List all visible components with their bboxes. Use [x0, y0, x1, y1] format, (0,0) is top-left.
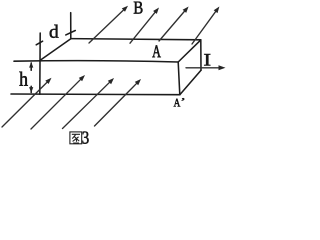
- slab bottom-right depth edge: [180, 70, 201, 95]
- dimension h down arrow head: [29, 87, 33, 93]
- extension line above back-top-left corner: [70, 13, 72, 39]
- front B field arrow 1 shaft: [2, 81, 49, 127]
- slab back-right vertical edge: [200, 40, 202, 70]
- slab back-top edge: [71, 39, 201, 40]
- label I (current): [204, 54, 210, 66]
- B field arrow 3 head: [183, 7, 189, 13]
- front B field arrow 1 head: [45, 78, 51, 84]
- front B field arrow 3 head: [108, 78, 114, 84]
- B field arrow 3 shaft: [159, 10, 186, 42]
- label B: [134, 2, 143, 14]
- dimension h shaft lower stub: [30, 86, 32, 92]
- slab front-top edge with left extension line: [14, 61, 178, 62]
- B field arrow 4 shaft: [192, 10, 217, 44]
- current I arrow shaft: [186, 67, 221, 69]
- slab top-left depth edge: [40, 39, 71, 60]
- slab front-left vertical edge with extension above: [39, 33, 41, 94]
- current I arrow head: [219, 65, 226, 70]
- label A (top surface): [152, 45, 161, 57]
- B field arrow 1 shaft: [89, 9, 125, 44]
- front B field arrow 4 head: [135, 79, 141, 85]
- slab front-right vertical edge: [178, 62, 180, 95]
- dimension h up arrow head: [29, 62, 33, 68]
- front B field arrow 4 shaft: [95, 82, 139, 126]
- label d (depth): [50, 25, 59, 38]
- dimension d tick on front extension: [36, 41, 42, 45]
- caption glyph 图: [70, 132, 82, 144]
- front B field arrow 2 shaft: [31, 78, 82, 129]
- front B field arrow 2 head: [79, 75, 85, 81]
- slab front-bottom edge with left extension line: [11, 93, 180, 96]
- label A-prime (bottom corner): [174, 99, 181, 107]
- B field arrow 4 head: [214, 7, 220, 14]
- B field arrow 2 shaft: [130, 11, 157, 44]
- B field arrow 2 head: [153, 8, 159, 14]
- slab top-right depth edge: [178, 40, 201, 62]
- dimension d tick on back extension: [66, 31, 76, 35]
- dimension h shaft upper stub: [30, 63, 32, 70]
- label h (height): [19, 72, 28, 86]
- caption digit 3: [83, 132, 89, 144]
- B field arrow 1 head: [122, 6, 128, 12]
- front B field arrow 3 shaft: [63, 81, 112, 129]
